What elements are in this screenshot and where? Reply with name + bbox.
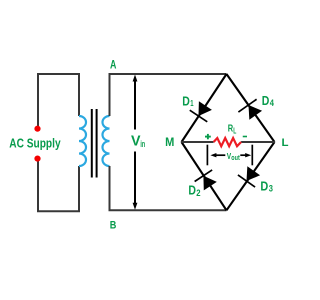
Vin arrowhead down (133, 203, 138, 210)
svg-text:AC Supply: AC Supply (9, 135, 61, 150)
Vout tick right (251, 145, 253, 166)
svg-text:D: D (262, 93, 270, 108)
svg-text:4: 4 (270, 98, 275, 108)
svg-text:M: M (165, 135, 174, 149)
AC source terminal dot bottom (34, 156, 40, 162)
wire primary top loop (38, 74, 79, 127)
wire M to resistor (182, 141, 214, 143)
transformer secondary coil (103, 116, 110, 166)
bridge arm T to M (182, 74, 227, 142)
diode D1 triangle (199, 101, 212, 116)
Vout tick left (206, 145, 208, 166)
Vout arrow left (214, 154, 225, 156)
diode D2 cathode bar (195, 170, 213, 182)
diode D3 cathode bar (238, 175, 255, 187)
Vin arrow shaft bottom (134, 152, 136, 205)
svg-text:D: D (188, 182, 196, 197)
diode D4 triangle (249, 105, 263, 120)
wire secondary top to bridge (110, 74, 227, 116)
wire secondary bottom to bridge (110, 166, 227, 210)
label plus (205, 136, 211, 138)
transformer primary coil (79, 116, 86, 166)
svg-text:out: out (231, 155, 240, 162)
svg-text:3: 3 (269, 184, 273, 194)
svg-text:D: D (182, 94, 190, 109)
diode D3 triangle (247, 166, 261, 181)
wire resistor to L (241, 141, 274, 143)
svg-text:A: A (110, 57, 117, 71)
svg-text:L: L (233, 127, 236, 136)
Vin arrow shaft top (134, 80, 136, 130)
svg-text:V: V (131, 133, 141, 149)
AC source terminal dot top (34, 126, 40, 132)
label minus (243, 136, 247, 138)
svg-text:2: 2 (196, 188, 200, 198)
diode D1 cathode bar (190, 110, 208, 122)
svg-text:1: 1 (190, 98, 193, 108)
transformer core (91, 109, 93, 178)
Vin arrowhead up (133, 75, 138, 82)
resistor RL zigzag (214, 138, 242, 146)
svg-text:D: D (260, 178, 268, 193)
svg-text:L: L (282, 137, 289, 149)
svg-text:B: B (110, 219, 117, 231)
Vout arrow right (240, 154, 246, 156)
svg-text:in: in (140, 139, 145, 149)
diode D2 triangle (203, 176, 216, 191)
bridge arm M to B (182, 142, 227, 210)
wire primary bottom loop (38, 160, 79, 211)
diode D4 cathode bar (238, 99, 256, 112)
bridge arm T to L (227, 74, 275, 142)
bridge arm L to B (227, 142, 275, 210)
